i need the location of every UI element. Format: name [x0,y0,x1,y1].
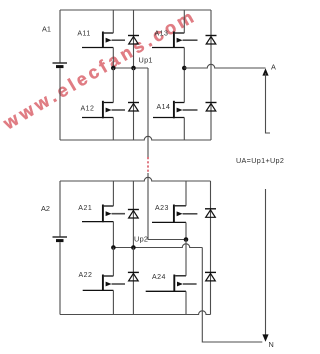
wire A13 drain [183,10,185,33]
wire mid rail left leg bridge1 (node Up1) [113,67,148,69]
transistor A21 [82,205,125,223]
svg-text:A12: A12 [81,106,95,113]
wire A24 source [185,291,187,314]
wire left side upper (top rail to battery A1) [59,10,61,62]
wire A11 source [112,48,114,69]
svg-text:Up2: Up2 [134,235,148,244]
svg-text:A: A [271,62,276,71]
wire bottom rail bridge2 (hop over output link at x=202.3) [60,311,211,315]
wire series link bridge1 to bridge2 (upper solid) [147,68,149,157]
diode D22 [128,248,139,315]
wire top rail bridge1 [60,9,211,11]
diode D13 [206,36,217,45]
diode D21 [128,181,139,248]
wire A24 drain (from Up2 node through mid-rail hop) [185,240,187,276]
transistor A23 [152,205,197,223]
transistor A11 [82,32,125,49]
wire bridge1 output to terminal A (hop over diode branch x=211) [184,64,265,68]
wire A23 drain [185,181,187,206]
wire A21 drain [112,181,114,206]
wire terminal A lead [266,73,271,133]
svg-text:N: N [269,340,274,349]
node Up2 junction (A23 source / A24 drain / link) [184,237,189,242]
svg-text:A13: A13 [155,31,169,38]
svg-text:A21: A21 [78,205,92,212]
svg-text:A2: A2 [41,204,50,213]
transistor A14 [153,101,198,119]
transistor A24 [146,275,197,292]
svg-text:A22: A22 [79,272,93,279]
terminal A arrow [262,68,268,75]
diode D23 [205,209,216,218]
wire left side upper (top rail to battery A2) [59,181,61,236]
wire bottom rail bridge1 (hop over link at x=148) [60,136,211,140]
diode D11 [128,10,139,68]
node junction D11/D12 [131,66,136,71]
terminal N arrow [262,334,268,341]
wire A11 drain [112,10,114,33]
node junction A21/A22 [111,245,116,250]
svg-text:A23: A23 [155,205,169,212]
diode D24 [205,272,216,281]
svg-text:www.elecfans.com: www.elecfans.com [0,5,200,134]
wire series link red dashed section [147,157,149,173]
wire bridge2 output down to N (through bottom rail hop) [202,248,262,343]
node junction A11/A12 [111,66,116,71]
wire A21 source [112,222,114,248]
transistor A13 [152,32,198,49]
wire A12 drain [112,68,114,103]
transistor A12 [82,101,125,119]
wire right side bridge2 (diode branch D23/D24) [210,181,212,315]
wire A22 drain [112,248,114,277]
wire left side lower (battery A2 to bottom rail) [59,242,61,314]
wire left side lower (battery A1 to bottom rail) [59,68,61,140]
wire mid rail left leg bridge2 (hop over A-branch x=186, corner down) [113,244,202,248]
battery A1 [53,63,68,67]
wire terminal N lead [265,189,267,335]
svg-text:A14: A14 [157,104,171,111]
wire A22 source [112,290,114,314]
svg-text:A1: A1 [42,25,51,34]
svg-text:Up1: Up1 [139,56,153,65]
wire top rail bridge2 (hop over link at x=148) [60,177,211,181]
node junction A13/A14 (bridge1 output to A) [182,66,187,71]
svg-text:A11: A11 [77,31,90,38]
wire series link lower solid, corner to Up2 node [148,173,186,240]
battery A2 [53,237,68,241]
svg-text:A24: A24 [152,274,166,281]
wire A14 source [183,118,185,141]
svg-text:UA=Up1+Up2: UA=Up1+Up2 [236,156,284,165]
wire right side bridge1 (diode branch D13/D14) [210,10,212,140]
wire A12 source [112,118,114,141]
node junction D21/D22 [131,245,136,250]
transistor A22 [83,275,125,292]
diode D14 [206,103,217,112]
wire A13 source [183,48,185,69]
wire A23 source [185,222,187,239]
wire A14 drain [183,68,185,103]
diode D12 [128,68,139,140]
